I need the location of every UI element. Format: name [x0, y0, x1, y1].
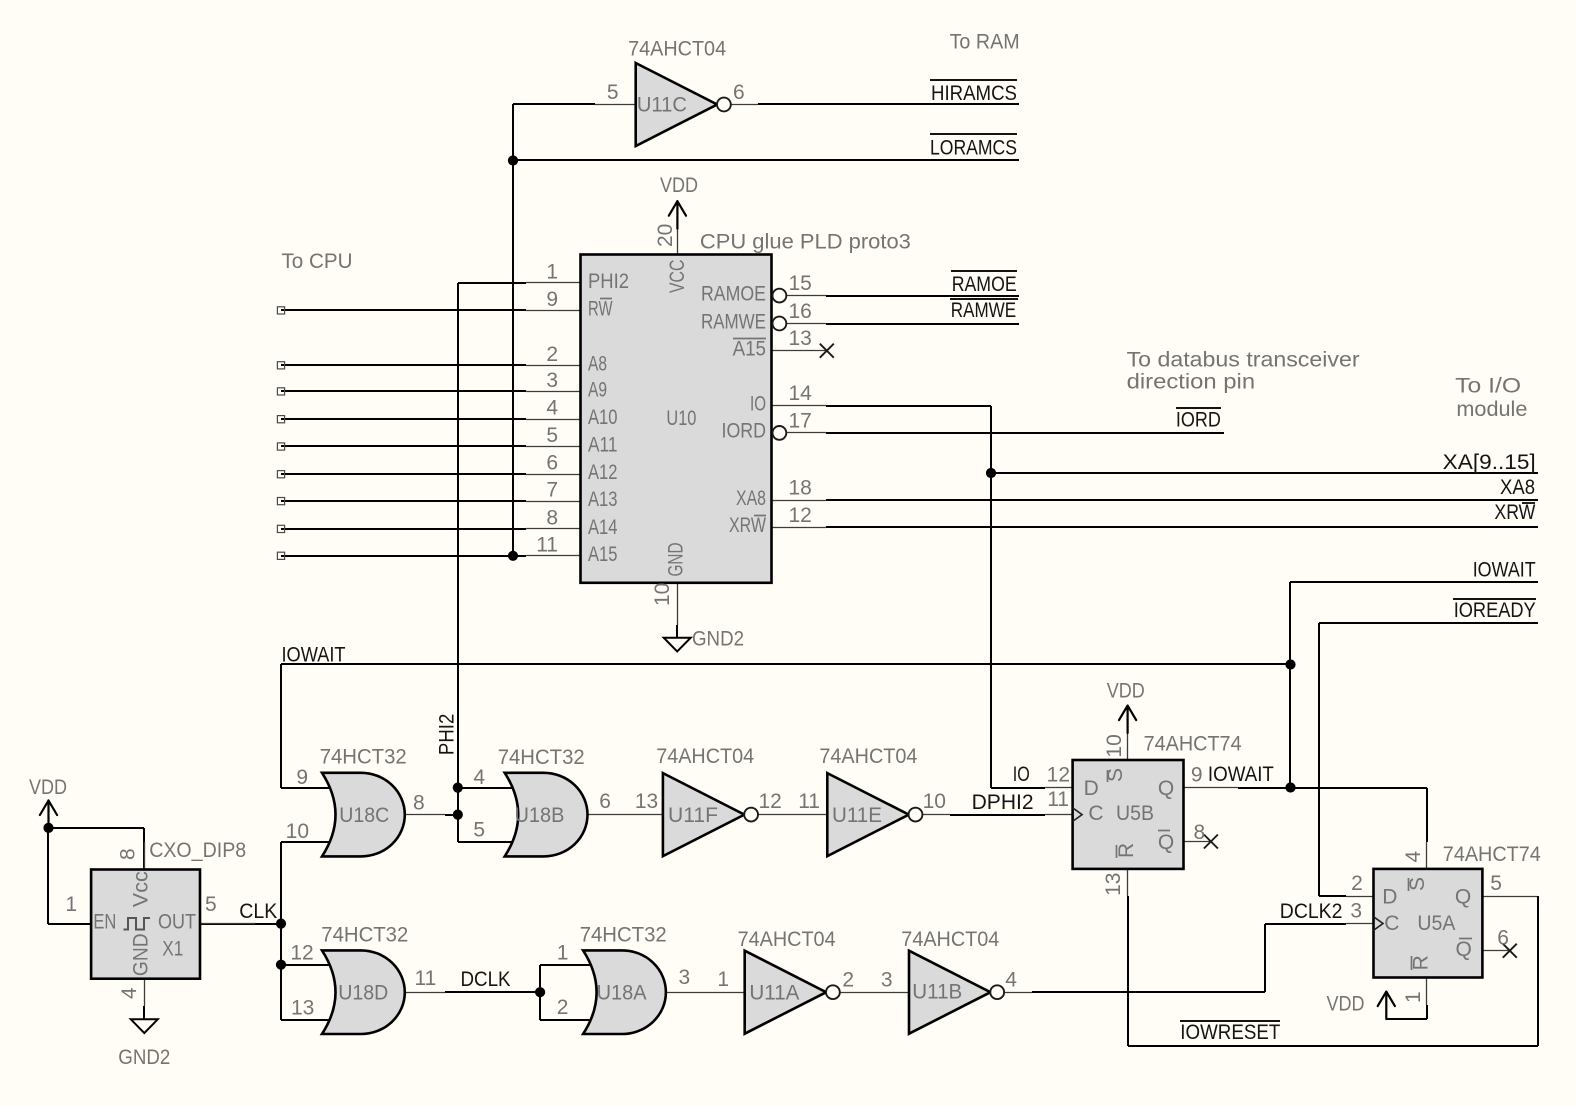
junction A15 tap	[508, 551, 518, 561]
svg-text:A14: A14	[588, 516, 618, 539]
X1 pin stubs	[145, 842, 256, 1006]
svg-text:CXO_DIP8: CXO_DIP8	[149, 839, 246, 862]
wire IOWAIT right riser	[1290, 582, 1538, 788]
svg-text:12: 12	[759, 790, 782, 813]
svg-text:11: 11	[536, 533, 558, 556]
svg-text:14: 14	[789, 382, 813, 405]
svg-text:11: 11	[1047, 788, 1069, 811]
VDD at U5B S	[1107, 680, 1145, 733]
svg-text:R: R	[1409, 955, 1432, 970]
wire PHI2 to U10 pin 1	[458, 282, 526, 284]
svg-text:Q: Q	[1455, 886, 1471, 909]
svg-text:U10: U10	[666, 407, 696, 430]
svg-text:VDD: VDD	[29, 776, 67, 799]
svg-text:U11B: U11B	[912, 981, 962, 1004]
refdes U11E	[832, 804, 882, 827]
pin number 3	[679, 966, 691, 989]
bubble pin 16	[773, 317, 787, 331]
wire A12	[281, 473, 526, 475]
bubble pin 15	[773, 289, 787, 303]
X1 pin name Vcc rotated	[130, 871, 153, 907]
svg-text:LORAMCS: LORAMCS	[930, 137, 1017, 160]
svg-text:VDD: VDD	[1107, 680, 1145, 703]
U5B pin names	[1084, 777, 1175, 854]
refdes U11C	[637, 94, 687, 117]
svg-text:DCLK: DCLK	[461, 968, 511, 991]
U10 pin number 20	[654, 224, 677, 247]
or-gate U18A body	[583, 950, 666, 1034]
global label RAMOE	[951, 271, 1017, 296]
wire RAMOE	[826, 295, 1019, 297]
svg-text:20: 20	[654, 224, 677, 247]
wire RW from CPU	[281, 309, 526, 311]
svg-text:11: 11	[415, 967, 437, 990]
inverter U11B body	[909, 951, 1004, 1034]
svg-text:VDD: VDD	[1327, 992, 1365, 1015]
svg-text:A12: A12	[588, 461, 618, 484]
refdes U18A	[597, 982, 647, 1005]
svg-text:XA8: XA8	[736, 487, 766, 510]
svg-text:10: 10	[923, 790, 946, 813]
svg-text:CPU glue PLD proto3: CPU glue PLD proto3	[700, 230, 911, 253]
wire U18A out to U11A	[665, 992, 745, 994]
U5B pin stubs	[1045, 733, 1238, 896]
junction IOWAIT top	[1285, 659, 1295, 669]
svg-text:PHI2: PHI2	[588, 270, 629, 293]
label 74AHCT74 U5A	[1443, 843, 1541, 866]
wire XA8	[826, 499, 1538, 501]
svg-text:8: 8	[413, 792, 425, 815]
svg-text:5: 5	[205, 893, 217, 916]
svg-text:13: 13	[1102, 873, 1125, 896]
svg-text:13: 13	[789, 327, 812, 350]
wire PHI2 vertical	[457, 283, 459, 842]
svg-text:5: 5	[546, 424, 558, 447]
wire CLK vertical	[280, 842, 282, 1020]
X1 pin number 8 rotated	[116, 848, 139, 860]
pin number 2	[842, 969, 854, 992]
IC U10 body	[581, 255, 772, 583]
svg-text:To RAM: To RAM	[950, 31, 1020, 54]
svg-text:XRW: XRW	[1494, 501, 1535, 524]
refdes U11B	[912, 981, 962, 1004]
wire A11	[281, 445, 526, 447]
svg-text:GND2: GND2	[692, 628, 744, 651]
wire IOREADY	[1319, 623, 1538, 896]
pin number 12	[759, 790, 782, 813]
inverter U11F body	[663, 773, 758, 856]
or-gate U18C body	[322, 773, 405, 857]
svg-text:A15: A15	[588, 543, 618, 566]
junction LORAMCS tap	[508, 155, 518, 165]
svg-text:9: 9	[296, 766, 308, 789]
global label IOREADY	[1453, 599, 1536, 622]
flip-flop U5A body	[1374, 869, 1483, 978]
wire U18A pin 2	[540, 1019, 600, 1021]
svg-text:PHI2: PHI2	[435, 714, 458, 755]
svg-text:6: 6	[546, 452, 558, 475]
wire IO net	[826, 406, 1045, 788]
U10 pin names right	[701, 282, 766, 537]
svg-text:A11: A11	[588, 434, 618, 457]
svg-text:To databus transceiver: To databus transceiver	[1127, 349, 1360, 372]
wire A9	[281, 390, 526, 392]
junction CLK	[276, 919, 286, 929]
svg-text:1: 1	[717, 968, 729, 991]
label 74AHCT04 U11A	[738, 928, 836, 951]
U10 pin numbers right	[789, 272, 813, 527]
refdes U10	[666, 407, 696, 430]
label CXO_DIP8	[149, 839, 246, 862]
svg-text:IORD: IORD	[722, 420, 767, 443]
svg-text:A15: A15	[733, 338, 766, 361]
U5A pin name S rotated	[1406, 877, 1429, 891]
net label IOWAIT left	[282, 643, 346, 666]
svg-text:9: 9	[1191, 764, 1203, 787]
wire A10	[281, 418, 526, 420]
junction X1 VDD	[43, 823, 53, 833]
X1 pin number 4 rotated	[118, 987, 141, 999]
svg-text:A9: A9	[588, 378, 607, 401]
svg-text:A10: A10	[588, 406, 618, 429]
svg-text:IORD: IORD	[1176, 409, 1221, 432]
svg-text:8: 8	[1194, 821, 1206, 844]
refdes X1	[162, 938, 183, 961]
or-gate U18B body	[505, 773, 588, 857]
svg-text:2: 2	[557, 996, 569, 1019]
junction IOWAIT / U5B Q	[1285, 782, 1295, 792]
svg-text:1: 1	[65, 893, 77, 916]
svg-text:GND: GND	[665, 543, 688, 577]
global label IOWAIT right	[1473, 558, 1536, 581]
svg-text:10: 10	[286, 820, 309, 843]
junction CLK / U18D pin12	[276, 960, 286, 970]
U10 pin name GND	[665, 543, 688, 577]
pin number 1	[557, 942, 569, 965]
svg-text:18: 18	[789, 477, 812, 500]
wire U18D pin 13	[281, 1019, 330, 1021]
wire IOWAIT left drop to U18C pin 9	[281, 664, 330, 788]
svg-text:74AHCT04: 74AHCT04	[738, 928, 836, 951]
or-gate U18D body	[322, 950, 405, 1034]
svg-text:EN: EN	[93, 911, 116, 934]
svg-text:XA[9..15]: XA[9..15]	[1443, 451, 1536, 474]
wire A14	[281, 528, 526, 530]
svg-text:IO: IO	[1013, 763, 1030, 786]
svg-text:74HCT32: 74HCT32	[580, 924, 667, 947]
svg-text:2: 2	[546, 343, 558, 366]
svg-text:U11E: U11E	[832, 804, 882, 827]
svg-text:4: 4	[1402, 851, 1425, 863]
wire X1 VDD to Vcc pin	[48, 828, 144, 870]
svg-text:16: 16	[789, 300, 812, 323]
wire U18C pin 10	[281, 841, 330, 843]
U5B pin number 10 rotated	[1103, 734, 1126, 757]
svg-text:1: 1	[1402, 991, 1425, 1003]
svg-text:IOWRESET: IOWRESET	[1180, 1021, 1280, 1044]
global label XRW	[1494, 501, 1535, 524]
U5A pin name R rotated	[1409, 955, 1432, 970]
svg-text:direction pin: direction pin	[1127, 371, 1256, 394]
svg-text:Q: Q	[1158, 777, 1174, 800]
svg-text:OUT: OUT	[158, 911, 196, 934]
svg-text:13: 13	[635, 790, 658, 813]
wire U18A pin 1	[540, 964, 600, 966]
pin number 8	[413, 792, 425, 815]
svg-text:12: 12	[789, 504, 812, 527]
net label DCLK	[461, 968, 511, 991]
pin number 4	[1005, 969, 1017, 992]
svg-text:IOWAIT: IOWAIT	[282, 643, 346, 666]
svg-text:5: 5	[607, 81, 619, 104]
svg-text:C: C	[1088, 802, 1103, 825]
wire U11A out to U11B	[840, 992, 909, 994]
global label XA[9..15]	[1443, 451, 1536, 474]
oscillator X1 body	[91, 870, 200, 979]
wire DCLK2 to U5A C	[1265, 923, 1346, 925]
net label DPHI2	[972, 791, 1034, 814]
svg-text:4: 4	[1005, 969, 1017, 992]
pin number 5 U11C	[607, 81, 619, 104]
global label IORD	[1176, 408, 1221, 432]
X1 pin name GND rotated	[130, 933, 153, 976]
svg-text:4: 4	[473, 766, 485, 789]
svg-text:U18C: U18C	[339, 804, 389, 827]
wire U11B out to DCLK2 riser	[1004, 924, 1265, 993]
svg-text:GND: GND	[130, 933, 153, 976]
pin number 6 U11C	[733, 81, 745, 104]
svg-text:XRW: XRW	[729, 514, 766, 537]
wire IORD	[826, 432, 1224, 434]
wire RAMWE	[826, 323, 1019, 325]
junction PHI2 / U18C out	[453, 810, 463, 820]
pin number 3	[881, 969, 893, 992]
svg-text:3: 3	[881, 969, 893, 992]
svg-text:HIRAMCS: HIRAMCS	[931, 82, 1017, 105]
svg-text:6: 6	[733, 81, 745, 104]
label 74AHCT04 U11C	[628, 37, 726, 60]
svg-text:U5B: U5B	[1116, 802, 1154, 825]
flip-flop U5B body	[1073, 760, 1184, 869]
U11C pin stubs	[595, 104, 758, 106]
U10 pin name VCC	[666, 260, 689, 293]
net label IO	[1013, 763, 1030, 786]
svg-text:VDD: VDD	[660, 174, 698, 197]
U10 pin stubs	[526, 227, 826, 625]
comment To databus transceiver direction pin	[1127, 349, 1360, 394]
wire A15 net to U11C input	[513, 104, 595, 556]
svg-text:74AHCT74: 74AHCT74	[1144, 732, 1242, 755]
svg-text:Q: Q	[1158, 831, 1174, 854]
svg-text:5: 5	[473, 819, 485, 842]
svg-text:Vcc: Vcc	[130, 871, 153, 907]
U10 pin numbers left	[536, 260, 558, 556]
CPU wire end squares	[277, 307, 284, 560]
pin number 2	[557, 996, 569, 1019]
svg-text:74AHCT04: 74AHCT04	[819, 745, 917, 768]
comment To I/O module	[1455, 374, 1527, 421]
label 74HCT32 U18D	[321, 924, 408, 947]
net label CLK	[239, 900, 277, 923]
svg-text:VCC: VCC	[666, 260, 689, 293]
svg-text:10: 10	[651, 583, 674, 606]
svg-text:IOWAIT: IOWAIT	[1208, 763, 1274, 786]
svg-text:RAMOE: RAMOE	[701, 282, 766, 305]
wire CLK from X1	[200, 923, 281, 925]
svg-text:12: 12	[290, 942, 313, 965]
svg-text:U18D: U18D	[338, 982, 388, 1005]
svg-text:74AHCT04: 74AHCT04	[901, 928, 999, 951]
VDD at X1	[29, 776, 67, 828]
svg-text:A8: A8	[588, 352, 607, 375]
VDD at U5A R	[1327, 992, 1395, 1019]
global label LORAMCS	[930, 134, 1017, 160]
GND2 at X1	[118, 1006, 170, 1069]
refdes U5A	[1417, 912, 1455, 935]
svg-text:R: R	[1115, 843, 1138, 858]
svg-text:3: 3	[679, 966, 691, 989]
svg-text:CLK: CLK	[239, 900, 277, 923]
svg-text:A13: A13	[588, 488, 618, 511]
U5B pin number 13 rotated	[1102, 873, 1125, 896]
label 74AHCT04 U11F	[656, 745, 754, 768]
wire U18D pin 12	[281, 964, 330, 966]
svg-text:U18B: U18B	[515, 804, 565, 827]
svg-text:X1: X1	[162, 938, 183, 961]
U5A pin numbers	[1350, 872, 1509, 950]
VDD at U10 VCC	[660, 174, 698, 229]
svg-text:IOWAIT: IOWAIT	[1473, 558, 1536, 581]
wire DCLK vertical split	[539, 965, 541, 1020]
svg-text:74HCT32: 74HCT32	[321, 924, 408, 947]
no-connect U5B pin 8	[1204, 835, 1218, 849]
inverter U11A body	[745, 951, 840, 1034]
wire A8	[281, 364, 526, 366]
svg-text:D: D	[1382, 886, 1397, 909]
svg-text:10: 10	[1103, 734, 1126, 757]
refdes U11F	[668, 804, 718, 827]
wire U18B out to U11F	[587, 814, 663, 816]
wire DCLK U18D out	[404, 991, 540, 994]
svg-text:74AHCT04: 74AHCT04	[656, 745, 754, 768]
GND2 at U10	[664, 625, 744, 652]
net label PHI2 rotated	[435, 714, 458, 755]
U5A pin stubs	[1346, 842, 1537, 1005]
svg-text:RAMOE: RAMOE	[952, 273, 1017, 296]
wire U11F out to U11E	[758, 814, 827, 816]
svg-text:RW: RW	[588, 297, 613, 320]
pin number 13	[635, 790, 658, 813]
svg-text:74AHCT74: 74AHCT74	[1443, 843, 1541, 866]
wire U18C output PHI2	[404, 814, 458, 817]
svg-text:U11C: U11C	[637, 94, 687, 117]
svg-text:1: 1	[546, 260, 558, 283]
svg-text:5: 5	[1490, 872, 1502, 895]
global label IOWRESET	[1180, 1021, 1280, 1044]
svg-text:DPHI2: DPHI2	[972, 791, 1034, 814]
junction PHI2 / U18B pin4	[453, 783, 463, 793]
svg-text:U5A: U5A	[1417, 912, 1455, 935]
wire XA[9..15]	[991, 472, 1538, 474]
svg-text:2: 2	[842, 969, 854, 992]
svg-text:IOREADY: IOREADY	[1454, 599, 1536, 622]
svg-text:74HCT32: 74HCT32	[320, 746, 407, 769]
pin number 11	[415, 967, 437, 990]
X1 pin numbers	[65, 893, 216, 916]
svg-text:U11A: U11A	[749, 982, 799, 1005]
svg-text:9: 9	[546, 288, 558, 311]
label 74HCT32 U18B	[498, 746, 585, 769]
wire IOWRESET	[1128, 896, 1538, 1046]
svg-text:XA8: XA8	[1500, 476, 1535, 499]
svg-text:74HCT32: 74HCT32	[498, 746, 585, 769]
svg-text:RAMWE: RAMWE	[701, 310, 766, 333]
refdes U11A	[749, 982, 799, 1005]
pin number 10	[286, 820, 309, 843]
wire IOWAIT Q to U5A S	[1238, 788, 1427, 842]
wire HIRAMCS	[758, 103, 1019, 105]
U5A pin number 4 rotated	[1402, 851, 1425, 863]
svg-text:15: 15	[789, 272, 812, 295]
wire LORAMCS	[513, 159, 1019, 161]
U5B pin name S rotated	[1104, 768, 1127, 782]
pin number 6	[599, 790, 611, 813]
svg-text:6: 6	[1497, 927, 1509, 950]
svg-text:12: 12	[1047, 764, 1070, 787]
pin number 4	[473, 766, 485, 789]
svg-text:IO: IO	[750, 392, 766, 415]
net label DCLK2	[1280, 900, 1343, 923]
label 74HCT32 U18A	[580, 924, 667, 947]
svg-text:13: 13	[291, 997, 314, 1020]
svg-text:11: 11	[798, 790, 820, 813]
svg-text:U18A: U18A	[597, 982, 647, 1005]
U10 pin number 10	[651, 583, 674, 606]
wire XRW	[826, 526, 1538, 528]
wire U5A R to VDD	[1386, 1005, 1427, 1019]
svg-text:74AHCT04: 74AHCT04	[628, 37, 726, 60]
svg-text:To I/O: To I/O	[1455, 374, 1521, 397]
svg-text:1: 1	[557, 942, 569, 965]
pin number 9	[296, 766, 308, 789]
svg-text:3: 3	[546, 369, 558, 392]
svg-text:GND2: GND2	[118, 1046, 170, 1069]
net label IOWAIT at U5B Q	[1208, 763, 1274, 786]
junction IO / XA bus	[986, 468, 996, 478]
svg-text:8: 8	[116, 848, 139, 860]
refdes U18D	[338, 982, 388, 1005]
refdes U18C	[339, 804, 389, 827]
svg-text:4: 4	[118, 987, 141, 999]
wire X1 VDD to EN pin	[48, 828, 91, 924]
comment To CPU	[282, 250, 353, 273]
junction DCLK	[535, 987, 545, 997]
U5B pin name R rotated	[1115, 843, 1138, 858]
bubble pin 17	[773, 426, 787, 440]
wire A15	[281, 555, 526, 557]
no-connect U10 pin 13	[820, 344, 834, 358]
pin number 10	[923, 790, 946, 813]
svg-text:DCLK2: DCLK2	[1280, 900, 1343, 923]
comment To RAM	[950, 31, 1020, 54]
svg-text:To CPU: To CPU	[282, 250, 353, 273]
no-connect U5A pin 6	[1503, 944, 1517, 958]
wire DPHI2 U11E out to U5B C	[922, 814, 1045, 817]
label 74HCT32 U18C	[320, 746, 407, 769]
svg-text:6: 6	[599, 790, 611, 813]
svg-text:17: 17	[789, 409, 812, 432]
refdes U18B	[515, 804, 565, 827]
